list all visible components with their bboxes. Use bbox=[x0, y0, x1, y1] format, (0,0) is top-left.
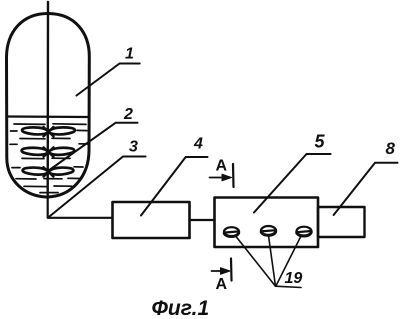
svg-text:3: 3 bbox=[129, 139, 138, 156]
nozzle 19 (right) bbox=[296, 227, 311, 237]
section marker A (top) bbox=[210, 164, 234, 187]
box 4 bbox=[113, 202, 190, 238]
svg-text:1: 1 bbox=[125, 46, 134, 63]
svg-text:19: 19 bbox=[285, 270, 303, 287]
leader line label 5 bbox=[254, 154, 331, 213]
wire box4 to box5 bbox=[190, 219, 215, 221]
leader line label 8 bbox=[334, 163, 398, 215]
svg-text:8: 8 bbox=[386, 139, 396, 158]
pipe 3 from vessel bottom bbox=[48, 196, 112, 218]
nozzle 19 (middle) bbox=[261, 226, 276, 236]
shaft of agitator bbox=[47, 2, 50, 196]
box 5 bbox=[215, 198, 319, 248]
agitator impeller 2 (middle) bbox=[22, 148, 75, 155]
box 8 bbox=[318, 207, 365, 237]
vessel 1 outline bbox=[7, 14, 90, 198]
agitator impeller 2 (bottom) bbox=[23, 168, 74, 175]
liquid hatch dashes bbox=[10, 124, 88, 193]
leader line label 2 bbox=[48, 123, 138, 171]
svg-text:Фиг.1: Фиг.1 bbox=[152, 297, 210, 319]
svg-text:A: A bbox=[216, 158, 228, 175]
liquid surface line bbox=[7, 115, 89, 118]
svg-text:4: 4 bbox=[193, 136, 203, 153]
section marker A (bottom) bbox=[212, 259, 232, 281]
leader line label 1 bbox=[77, 64, 140, 96]
svg-text:A: A bbox=[216, 276, 228, 293]
agitator impeller 2 (top) bbox=[22, 127, 75, 134]
impeller hub X crossings bbox=[44, 127, 54, 177]
svg-text:2: 2 bbox=[123, 106, 133, 123]
nozzle 19 (left) bbox=[224, 227, 239, 237]
leader line label 4 bbox=[141, 157, 208, 216]
leader lines of nozzles to label 19 bbox=[236, 236, 301, 288]
leader line label 3 bbox=[48, 157, 145, 218]
svg-text:5: 5 bbox=[315, 132, 326, 152]
